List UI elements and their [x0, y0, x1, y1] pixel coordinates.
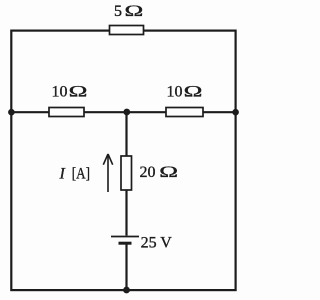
svg-text:Ω: Ω — [69, 82, 88, 100]
svg-text:25 V: 25 V — [141, 235, 173, 252]
svg-text:Ω: Ω — [159, 163, 178, 181]
svg-text:Ω: Ω — [184, 82, 203, 100]
svg-text:Ω: Ω — [125, 1, 144, 19]
svg-text:10: 10 — [52, 83, 68, 100]
svg-text:[A]: [A] — [72, 165, 90, 182]
svg-text:I: I — [59, 166, 66, 183]
svg-text:10: 10 — [167, 83, 183, 100]
svg-text:5: 5 — [114, 3, 122, 20]
svg-text:20: 20 — [140, 164, 156, 181]
